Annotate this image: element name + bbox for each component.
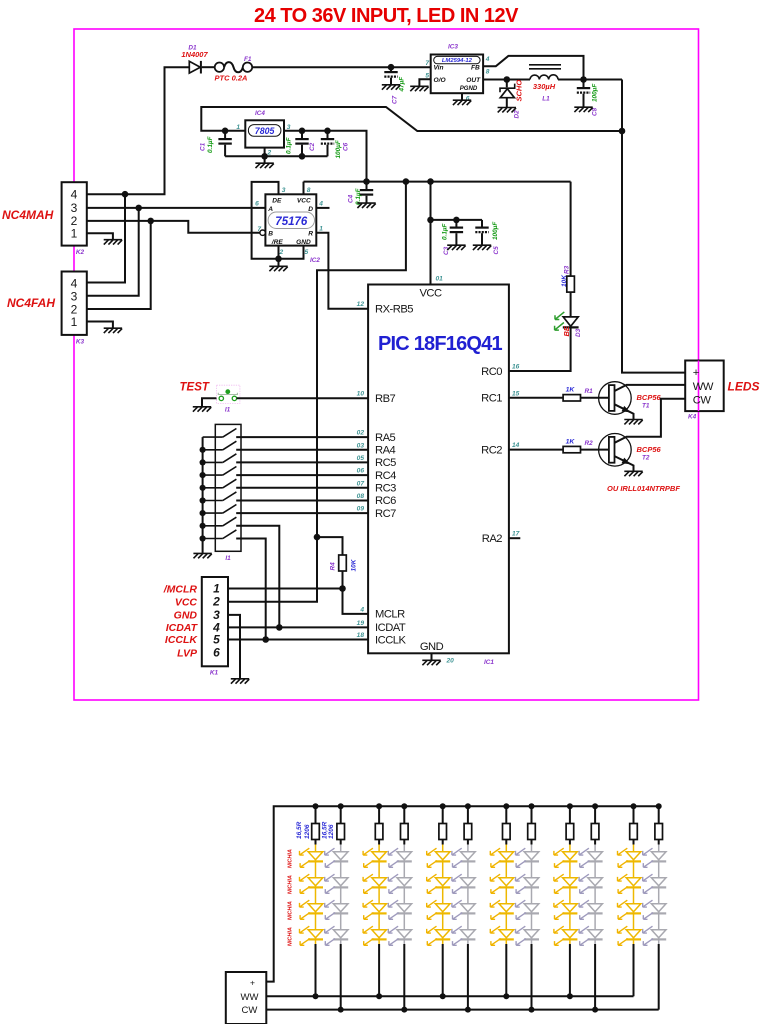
wire K3 pin1 to ground — [87, 322, 113, 328]
svg-text:18: 18 — [357, 632, 365, 639]
capacitor C5 100uF — [475, 220, 500, 255]
svg-text:14: 14 — [512, 442, 520, 449]
wire PIC GND pin 20 — [431, 653, 433, 660]
wire ICDAT net: K1 pin4 to PIC pin 19 — [228, 624, 368, 631]
wire switch 2 to PIC — [236, 449, 368, 451]
svg-text:RB7: RB7 — [375, 393, 396, 405]
switch 7 of I1 — [203, 505, 237, 514]
svg-text:LVP: LVP — [177, 648, 198, 660]
switch 1 of I1 — [203, 429, 237, 438]
wire TEST button to ground — [202, 398, 217, 406]
svg-text:05: 05 — [357, 455, 365, 462]
resistor ballast column 11 — [630, 806, 638, 844]
svg-text:4: 4 — [485, 56, 490, 63]
wire D1 to F1 — [202, 66, 215, 68]
ground — [382, 85, 400, 90]
ground — [269, 266, 287, 271]
LED string CW column 6 (4x cold white) — [643, 845, 667, 1010]
svg-text:RC0: RC0 — [481, 366, 502, 378]
svg-text:ICDAT: ICDAT — [166, 622, 199, 634]
svg-text:09: 09 — [357, 506, 365, 513]
svg-text:BCP56: BCP56 — [637, 445, 662, 454]
svg-text:8: 8 — [307, 187, 311, 194]
svg-text:F1: F1 — [244, 56, 252, 63]
svg-text:IC4: IC4 — [255, 110, 265, 117]
svg-text:10K: 10K — [561, 274, 568, 287]
resistor ballast column 2 — [337, 806, 345, 844]
wire K2 pin3 branch to K3 pin3 — [87, 208, 139, 296]
svg-text:GND: GND — [174, 610, 198, 622]
svg-text:RC5: RC5 — [375, 457, 396, 469]
regulator IC4 7805 — [236, 110, 290, 157]
svg-text:7: 7 — [425, 60, 429, 67]
LED string WW column 6 (4x NICHIA warm white) — [618, 845, 642, 997]
wire 12V to K4 plus pin — [622, 131, 685, 373]
svg-text:K1: K1 — [210, 670, 219, 677]
wire VCC 5V rail — [304, 178, 571, 185]
svg-text:0.1µF: 0.1µF — [442, 222, 449, 240]
LED string CW column 3 (4x cold white) — [452, 845, 476, 1010]
svg-text:R2: R2 — [585, 440, 594, 447]
svg-text:K4: K4 — [688, 414, 697, 421]
resistor ballast column 6 — [464, 806, 472, 844]
LED string WW column 4 (4x NICHIA warm white) — [490, 845, 514, 997]
wire D pin4 stub — [316, 207, 329, 209]
svg-text:1K: 1K — [566, 387, 576, 394]
wire K1 pin3 GND to ground — [228, 615, 240, 678]
switch 4 of I1 — [203, 467, 237, 476]
svg-text:6: 6 — [213, 646, 220, 660]
svg-text:01: 01 — [436, 276, 444, 283]
svg-text:C6: C6 — [343, 142, 350, 151]
svg-text:ICCLK: ICCLK — [375, 634, 406, 646]
transceiver IC2 75176 — [255, 187, 323, 264]
LED string CW column 5 (4x cold white) — [579, 845, 603, 1010]
svg-text:OUT: OUT — [466, 77, 481, 84]
svg-text:RC2: RC2 — [481, 444, 502, 456]
wire input from K2 pin4 to D1 anode — [87, 67, 190, 194]
svg-text:24 TO 36V INPUT, LED IN 12V: 24 TO 36V INPUT, LED IN 12V — [254, 5, 519, 27]
wire ground rail under 7805 — [225, 148, 327, 163]
svg-text:LM2594-12: LM2594-12 — [442, 58, 473, 64]
svg-text:C7: C7 — [392, 95, 399, 104]
svg-text:1206: 1206 — [328, 824, 335, 839]
svg-text:12: 12 — [357, 301, 365, 308]
diode D1 1N4007 — [181, 45, 208, 74]
push button I1 TEST — [217, 385, 240, 413]
svg-text:100µF: 100µF — [335, 139, 342, 158]
svg-text:C4: C4 — [348, 194, 355, 203]
switch 9 of I1 — [203, 530, 237, 539]
wire IC3 O/O pin 5 to ground — [419, 79, 430, 86]
wire switch 1 to PIC — [236, 436, 368, 438]
svg-text:1206: 1206 — [304, 824, 311, 839]
svg-text:/RE: /RE — [271, 239, 284, 246]
wire VCC branch down to MCLR pull-up / K1 — [228, 182, 406, 602]
svg-text:C1: C1 — [200, 142, 207, 151]
resistor R4 10K pull-up — [314, 534, 358, 592]
ground — [453, 100, 471, 105]
ground — [231, 679, 249, 684]
LED string WW column 2 (4x NICHIA warm white) — [363, 845, 387, 997]
resistor R3 10K — [561, 182, 575, 317]
labels NICHIA — [288, 849, 294, 946]
svg-text:R1: R1 — [585, 388, 594, 395]
capacitor C1 0.1uF — [200, 131, 232, 157]
LED string WW column 3 (4x NICHIA warm white) — [427, 845, 451, 997]
wire DE pin3 loop to ground rail with /RE pin2 and GND pin5 — [252, 182, 304, 266]
svg-text:IC2: IC2 — [310, 257, 320, 264]
svg-text:5: 5 — [305, 249, 309, 256]
svg-text:BCP56: BCP56 — [637, 393, 662, 402]
svg-text:03: 03 — [357, 442, 365, 449]
transistor T1 BCP56 — [599, 382, 686, 419]
svg-text:RA4: RA4 — [375, 445, 396, 457]
svg-text:T1: T1 — [642, 403, 650, 410]
svg-text:NICHIA: NICHIA — [288, 927, 294, 946]
ground — [104, 240, 122, 245]
svg-text:08: 08 — [357, 493, 365, 500]
wire R2 to T2 base — [581, 449, 610, 451]
ground — [574, 107, 592, 112]
switch 3 of I1 — [203, 454, 237, 463]
svg-text:20: 20 — [446, 658, 455, 665]
microcontroller IC1 PIC 18F16Q41 — [357, 276, 520, 667]
svg-text:RC4: RC4 — [375, 470, 396, 482]
svg-text:GND: GND — [296, 239, 311, 246]
op-amp / regulator IC3 LM2594-12 — [425, 44, 489, 103]
wire switch 9 to ICCLK net — [236, 539, 266, 640]
svg-text:Vin: Vin — [434, 65, 444, 72]
ground — [422, 660, 440, 665]
wire K2 pin4 branch to K3 pin4 — [87, 191, 129, 283]
wire switch 5 to PIC — [236, 487, 368, 489]
fuse F1 PTC 0.2A — [215, 56, 253, 83]
wire CW cathode rail to K5 — [266, 1007, 658, 1013]
wire F1 to IC3 Vin with junction — [252, 64, 431, 71]
svg-text:6: 6 — [255, 201, 259, 208]
ground — [447, 245, 465, 250]
svg-text:4: 4 — [318, 201, 323, 208]
wire ICCLK net: K1 pin5 to PIC pin 18 — [228, 636, 368, 643]
svg-text:4: 4 — [359, 606, 364, 613]
svg-text:NICHIA: NICHIA — [288, 875, 294, 894]
resistor ballast column 4 — [401, 806, 409, 844]
resistor ballast column 5 — [439, 806, 447, 844]
svg-text:RC7: RC7 — [375, 508, 396, 520]
dip switch bank I1 — [215, 424, 241, 551]
svg-text:07: 07 — [357, 480, 365, 487]
inductor L1 330uH — [529, 65, 561, 103]
svg-text:1: 1 — [71, 227, 78, 241]
svg-text:K2: K2 — [76, 249, 85, 256]
svg-text:7805: 7805 — [255, 126, 275, 136]
svg-text:5: 5 — [213, 632, 220, 646]
wire RC1 pin 15 to R1 — [509, 397, 563, 399]
svg-text:02: 02 — [357, 430, 365, 437]
svg-text:IC3: IC3 — [448, 44, 458, 51]
ground — [357, 203, 375, 208]
LED string CW column 2 (4x cold white) — [388, 845, 412, 1010]
ground — [624, 471, 642, 476]
svg-text:17: 17 — [512, 531, 520, 538]
resistor R2 1K — [563, 438, 593, 453]
svg-text:NICHIA: NICHIA — [288, 849, 294, 868]
resistor ballast column 7 — [503, 806, 511, 844]
svg-text:MCLR: MCLR — [375, 609, 405, 621]
svg-text:+: + — [693, 367, 699, 379]
svg-text:1: 1 — [71, 315, 78, 329]
wire IC3 PGND pin 6 — [461, 93, 463, 100]
svg-text:D2: D2 — [513, 110, 520, 119]
svg-text:CW: CW — [242, 1005, 258, 1016]
LED string CW column 1 (4x cold white) — [325, 845, 349, 1010]
switch 5 of I1 — [203, 479, 237, 488]
svg-text:NC4MAH: NC4MAH — [2, 208, 54, 222]
resistor ballast column 3 — [375, 806, 383, 844]
svg-text:1: 1 — [319, 226, 323, 233]
wire K2 pin2 branch to K3 pin2 — [87, 221, 151, 309]
resistor ballast column 12 — [655, 806, 663, 844]
svg-text:I1: I1 — [225, 407, 231, 414]
svg-text:16,5R: 16,5R — [296, 821, 303, 839]
svg-text:3: 3 — [71, 201, 78, 215]
wire VCC pin8 stub — [303, 182, 305, 195]
svg-text:DE: DE — [272, 197, 282, 204]
svg-text:1K: 1K — [566, 438, 576, 445]
svg-text:C2: C2 — [309, 142, 316, 151]
wire switch 8 to ICDAT net — [236, 526, 279, 628]
switch 8 of I1 — [203, 517, 237, 526]
resistor ballast column 10 — [591, 806, 599, 844]
svg-text:R3: R3 — [563, 265, 570, 274]
svg-text:D3: D3 — [575, 328, 582, 337]
capacitor C4 0.1uF — [348, 182, 374, 205]
svg-text:C5: C5 — [493, 246, 500, 255]
wire switch common rail to ground — [200, 437, 206, 553]
wire 12V rail from OUT node down and across to 7805 input — [201, 80, 625, 135]
wire D3 cathode to RC0 pin 16 — [509, 327, 571, 371]
schottky diode D2 SCHO — [500, 80, 524, 119]
svg-text:1: 1 — [213, 582, 220, 596]
svg-text:I1: I1 — [225, 555, 231, 562]
wire 7805 output to C2 C6 and VCC feed — [284, 128, 367, 182]
svg-text:ICDAT: ICDAT — [375, 622, 406, 634]
svg-text:CW: CW — [693, 395, 712, 407]
svg-text:330µH: 330µH — [533, 82, 556, 91]
frame border — [74, 29, 699, 700]
svg-text:75176: 75176 — [275, 216, 308, 228]
svg-text:4: 4 — [71, 188, 78, 202]
wire switch 6 to PIC — [236, 500, 368, 502]
svg-text:NICHIA: NICHIA — [288, 901, 294, 920]
svg-text:TEST: TEST — [180, 382, 210, 394]
wire RA2 pin 17 stub — [509, 537, 520, 539]
svg-text:8: 8 — [486, 68, 490, 75]
connector K3 NC4FAH — [7, 272, 87, 346]
connector K1 ICSP — [163, 577, 228, 677]
resistor ballast column 9 — [566, 806, 574, 844]
svg-text:10: 10 — [357, 391, 365, 398]
wire RC2 pin 14 to R2 — [509, 449, 563, 451]
wire /MCLR net: K1 pin1, R4, PIC MCLR pin 4 — [228, 589, 368, 614]
wire OUT net: IC3 pin 8 to L1 and C8 junction — [483, 76, 622, 83]
svg-text:06: 06 — [357, 468, 365, 475]
wire B input from K2 pin2 with inversion bubble — [87, 218, 265, 236]
wire switch 4 to PIC — [236, 474, 368, 476]
svg-text:T2: T2 — [642, 454, 650, 461]
wire switch 7 to PIC — [236, 512, 368, 514]
svg-text:OU IRLL014NTRPBF: OU IRLL014NTRPBF — [607, 484, 680, 493]
wire WW cathode rail to K5 — [266, 993, 633, 999]
ground — [410, 86, 428, 91]
svg-text:RC1: RC1 — [481, 393, 502, 405]
svg-text:SCHO: SCHO — [515, 80, 524, 102]
wire K5 plus to LED matrix top rail — [266, 803, 661, 981]
svg-text:3: 3 — [71, 290, 78, 304]
svg-text:15: 15 — [512, 390, 520, 397]
svg-text:5: 5 — [425, 72, 429, 79]
svg-text:1N4007: 1N4007 — [181, 50, 208, 59]
svg-text:PGND: PGND — [460, 85, 478, 92]
svg-text:R: R — [308, 231, 313, 238]
ground — [473, 245, 491, 250]
wire switch 3 to PIC — [236, 461, 368, 463]
svg-text:0.1µF: 0.1µF — [207, 135, 214, 153]
capacitor C6 100uF — [321, 131, 350, 159]
LED string WW column 5 (4x NICHIA warm white) — [554, 845, 578, 997]
LED string WW column 1 (4x NICHIA warm white) — [300, 845, 324, 997]
svg-text:2: 2 — [212, 595, 220, 609]
svg-text:0.1µF: 0.1µF — [286, 136, 293, 154]
ground — [498, 108, 516, 113]
svg-text:GND: GND — [420, 641, 444, 653]
svg-text:4: 4 — [71, 277, 78, 291]
switch 6 of I1 — [203, 492, 237, 501]
svg-text:K3: K3 — [76, 339, 85, 346]
svg-text:A: A — [267, 206, 273, 213]
connector K2 NC4MAH — [2, 182, 87, 256]
svg-text:O/O: O/O — [434, 77, 447, 84]
connector K4 LEDS — [685, 361, 759, 421]
svg-text:RC6: RC6 — [375, 495, 396, 507]
svg-text:L1: L1 — [542, 96, 550, 103]
ground — [104, 328, 122, 333]
capacitor C3 0.1uF — [442, 220, 463, 255]
labels resistor values 16,5R 1206 — [296, 821, 335, 839]
svg-text:ICCLK: ICCLK — [165, 634, 198, 646]
svg-text:LEDS: LEDS — [728, 380, 760, 394]
svg-text:WW: WW — [241, 992, 259, 1003]
wire R1 to T1 base — [581, 397, 610, 399]
capacitor C2 0.1uF — [286, 131, 316, 157]
svg-text:3: 3 — [282, 187, 286, 194]
svg-text:B: B — [268, 231, 273, 238]
ground — [193, 407, 211, 412]
svg-text:1: 1 — [236, 124, 240, 131]
wire FB feedback from pin 4 to output node — [483, 56, 583, 80]
svg-text:+: + — [250, 978, 255, 988]
svg-text:R4: R4 — [329, 562, 336, 571]
svg-text:VCC: VCC — [175, 596, 198, 608]
wire A input from K2 pin3 — [87, 205, 266, 212]
LED string CW column 4 (4x cold white) — [516, 845, 540, 1010]
svg-text:RA2: RA2 — [482, 533, 503, 545]
resistor ballast column 1 — [312, 806, 320, 844]
svg-text:WW: WW — [693, 381, 714, 393]
svg-text:D: D — [308, 206, 313, 213]
svg-text:RA5: RA5 — [375, 432, 396, 444]
resistor R1 1K — [563, 387, 593, 401]
svg-text:100µF: 100µF — [492, 221, 499, 240]
transistor T2 BCP56 — [599, 399, 686, 471]
connector K5 LED power — [226, 972, 266, 1024]
svg-text:PTC 0.2A: PTC 0.2A — [215, 74, 248, 83]
svg-text:VCC: VCC — [297, 197, 311, 204]
svg-text:PIC 18F16Q41: PIC 18F16Q41 — [378, 333, 502, 355]
wire K2 pin1 to ground — [87, 233, 113, 239]
svg-text:100µF: 100µF — [592, 83, 599, 102]
switch 2 of I1 — [203, 441, 237, 450]
resistor ballast column 8 — [528, 806, 536, 844]
wire R pin1 to PIC RX-RB5 — [316, 233, 368, 309]
wire VCC to C3 C5 and PIC pin 01 — [427, 182, 482, 285]
svg-text:IC1: IC1 — [484, 659, 494, 666]
LED D3 status — [555, 312, 582, 337]
svg-text:RX-RB5: RX-RB5 — [375, 304, 413, 316]
svg-text:VCC: VCC — [419, 288, 442, 300]
svg-text:16: 16 — [512, 364, 520, 371]
capacitor C7 47uF — [384, 67, 405, 104]
svg-text:FB: FB — [471, 65, 480, 72]
svg-text:NC4FAH: NC4FAH — [7, 296, 55, 310]
ground — [624, 420, 642, 425]
svg-text:19: 19 — [357, 620, 365, 627]
svg-text:10K: 10K — [350, 558, 357, 571]
svg-text:RC3: RC3 — [375, 483, 396, 495]
ground — [193, 553, 211, 558]
wire TEST button to RB7 pin 10 — [237, 397, 369, 399]
svg-text:/MCLR: /MCLR — [163, 583, 198, 595]
ground — [255, 163, 273, 168]
capacitor C8 100uF — [577, 80, 599, 117]
